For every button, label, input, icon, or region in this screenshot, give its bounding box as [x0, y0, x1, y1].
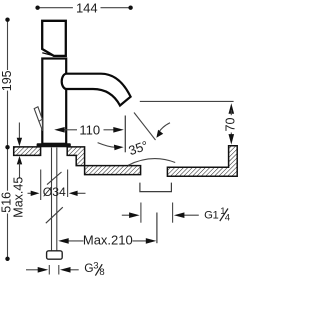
- svg-text:8: 8: [99, 267, 104, 278]
- dimension 110 (spout reach): [62, 129, 117, 131]
- curved leader arrow to spray line: [158, 123, 171, 135]
- handle (mixer lever): [42, 21, 66, 56]
- handle wedge lower line: [42, 53, 53, 56]
- spray angle line 35deg: [134, 113, 156, 141]
- svg-text:110: 110: [79, 122, 100, 137]
- svg-text:4: 4: [225, 213, 230, 224]
- dimension 195 / 516 (left column): [7, 20, 9, 259]
- basin arc over drain: [128, 159, 175, 166]
- svg-text:70: 70: [224, 118, 238, 132]
- rod break slash upper: [47, 172, 62, 185]
- dimension G3/8 (rod thread): [26, 265, 79, 275]
- curved leader arrow to axis line: [98, 143, 116, 148]
- svg-text:144: 144: [76, 1, 98, 16]
- deck stepped slab right of faucet hole (hatched Z-section): [67, 147, 140, 175]
- lever knob (open position, thin outline): [34, 107, 42, 131]
- svg-text:Ø34: Ø34: [43, 185, 66, 199]
- spout (curved outlet tube): [62, 74, 131, 106]
- svg-text:195: 195: [0, 70, 14, 91]
- dimension 70 (rim height): [229, 103, 235, 114]
- deck right slab with upturned rim (hatched L-section): [167, 146, 237, 176]
- dimension 144 (top): [38, 7, 131, 9]
- dimension Max.210 (drain distance): [66, 240, 149, 242]
- tail rod (threaded shank): [52, 148, 57, 251]
- witness line at spout axis: [124, 116, 126, 153]
- drain centreline: [156, 213, 158, 244]
- dimension G1 1/4 (drain size): [122, 203, 199, 223]
- faucet body: [42, 59, 66, 144]
- drain fitting below deck: [140, 183, 172, 192]
- dimension Max.45 (deck thickness): [18, 123, 20, 140]
- rod break slash lower: [46, 207, 63, 223]
- dimension O34 (hole diameter): [28, 170, 86, 201]
- lever knob end face line: [39, 119, 42, 121]
- reference line from spout outlet: [140, 100, 234, 102]
- svg-text:G: G: [84, 261, 93, 275]
- fixing nut G3/8: [47, 251, 63, 259]
- base flange: [37, 143, 71, 147]
- deck left slab (hatched): [14, 147, 41, 156]
- svg-text:Max.45: Max.45: [11, 177, 25, 218]
- svg-text:3: 3: [93, 261, 98, 272]
- svg-text:Max.210: Max.210: [83, 232, 133, 247]
- svg-text:G1: G1: [204, 210, 218, 222]
